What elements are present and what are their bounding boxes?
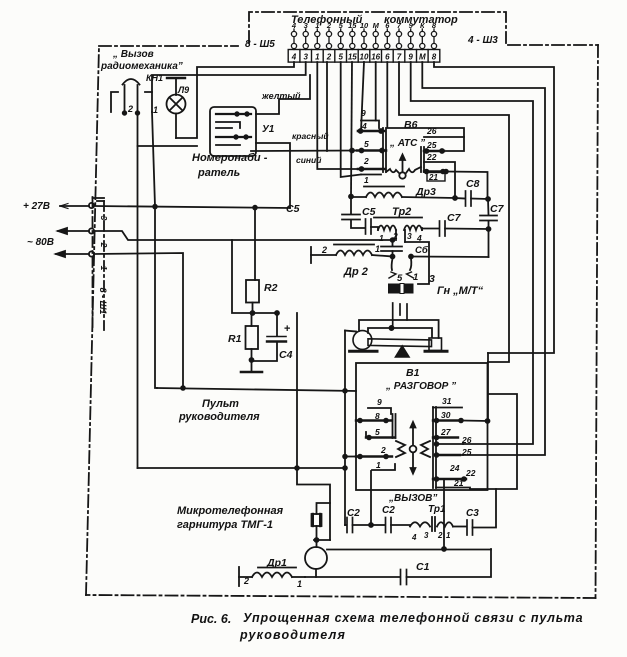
В6 contact 4 <box>358 121 384 133</box>
svg-text:1: 1 <box>153 105 158 115</box>
strip top pin numbers <box>291 21 437 30</box>
В1 right rail <box>433 407 436 488</box>
svg-text:Сб: Сб <box>415 245 429 256</box>
В1 contact 2 <box>356 445 392 458</box>
telephone capsule <box>305 547 327 577</box>
В1 contact 1 <box>372 460 395 470</box>
svg-text:гарнитура ТМГ-1: гарнитура ТМГ-1 <box>177 519 273 531</box>
~80V wire (pin1) <box>94 253 185 390</box>
~80V rail (pin2) <box>94 231 394 242</box>
svg-text:Микротелефонная: Микротелефонная <box>177 505 284 517</box>
wire to В1 21 <box>470 394 517 489</box>
wire красный (У1 to +27V rail) <box>256 131 329 208</box>
svg-text:1: 1 <box>375 244 380 254</box>
wire mic bottom row <box>314 538 330 542</box>
svg-text:2: 2 <box>99 242 109 248</box>
console dash-dot border (Пульт руководителя enclosure) <box>86 45 598 598</box>
capacitor C4 (electrolytic) <box>252 313 293 361</box>
В6 wiper <box>386 155 421 179</box>
svg-text:3: 3 <box>424 531 429 540</box>
lamp Л9 <box>167 78 190 138</box>
svg-text:С4: С4 <box>279 349 293 361</box>
svg-text:2: 2 <box>326 53 332 62</box>
svg-text:R2: R2 <box>264 282 278 294</box>
wire КН1 horizontal jog <box>138 145 198 147</box>
svg-text:25: 25 <box>426 140 437 150</box>
wire C4 node to mic row <box>296 313 298 468</box>
svg-text:22: 22 <box>426 152 437 162</box>
capacitor С7 (vertical) <box>480 199 505 257</box>
strip box pin numbers <box>291 53 437 62</box>
svg-text:ратель: ратель <box>197 167 240 179</box>
В6 right rail <box>421 147 424 172</box>
wire pin5 to В6 contact 1 <box>341 62 361 177</box>
wire В1-22 down to mic node <box>442 479 446 551</box>
svg-text:27: 27 <box>440 427 452 437</box>
wire pin10 to В6 contact 4 <box>361 62 364 131</box>
В1 contact 30 <box>433 410 488 422</box>
В6 contacts 2/1 <box>358 156 385 185</box>
В6 left rail <box>383 128 386 172</box>
svg-text:21: 21 <box>453 478 464 488</box>
svg-text:4: 4 <box>291 21 297 30</box>
label Гн „М/Т" <box>437 285 484 297</box>
switch В6 „АТС" labels <box>389 119 425 149</box>
svg-text:2: 2 <box>326 21 332 30</box>
svg-text:21: 21 <box>428 173 438 182</box>
capacitor С2 (first) <box>345 508 371 533</box>
svg-text:1: 1 <box>364 175 369 185</box>
capacitor С3 <box>466 489 496 535</box>
В6 contact 9 bracket <box>361 108 379 128</box>
transformer Тр1 <box>410 504 466 542</box>
svg-text:+ 27В: + 27В <box>23 201 50 212</box>
svg-text:3: 3 <box>99 216 109 221</box>
svg-text:15: 15 <box>348 21 357 30</box>
svg-text:15: 15 <box>348 53 357 62</box>
svg-text:6: 6 <box>385 53 390 62</box>
label +27В <box>23 201 50 212</box>
resistor R2 <box>246 280 278 313</box>
В1 contact 8 <box>356 411 392 422</box>
svg-text:10: 10 <box>360 53 369 62</box>
wire КН1 row to В1 <box>157 388 356 393</box>
jack Гн „М/Т" socket body <box>388 284 414 294</box>
В6 contact 26 <box>424 126 464 137</box>
svg-text:С5: С5 <box>362 206 376 218</box>
svg-text:7: 7 <box>397 53 402 62</box>
wire pin1 to В6 contact 2 <box>317 62 358 169</box>
svg-text:Др 2: Др 2 <box>343 266 368 278</box>
svg-text:22: 22 <box>465 468 476 478</box>
wire КН1 contact 2 down long <box>137 114 139 468</box>
wire pin8 right-down (D) <box>434 62 554 353</box>
connector pin 2 (~80V) <box>58 228 94 234</box>
svg-text:8 - Ш5: 8 - Ш5 <box>245 39 275 50</box>
connector pin 3 (+27V) <box>60 203 94 209</box>
+27V rail <box>94 205 290 210</box>
capacitor С5 (series) <box>362 206 378 234</box>
caption Рис.6 <box>191 611 584 642</box>
В1 labels <box>385 367 456 392</box>
svg-text:1: 1 <box>446 531 451 540</box>
svg-text:30: 30 <box>441 410 451 420</box>
svg-text:С8: С8 <box>466 178 480 190</box>
svg-text:Рис. 6.: Рис. 6. <box>191 612 231 626</box>
wire Тр2 pin3 wrap to jack <box>405 242 429 284</box>
svg-text:Упрощенная схема телефонной св: Упрощенная схема телефонной связи с пуль… <box>243 611 584 625</box>
microphone element <box>312 514 322 547</box>
svg-text:31: 31 <box>442 396 452 406</box>
svg-text:С7: С7 <box>447 212 462 224</box>
wire row y468 <box>138 466 346 470</box>
svg-text:Тр2: Тр2 <box>392 206 411 218</box>
wire С6 node to right column <box>409 255 489 259</box>
svg-text:4: 4 <box>411 533 417 542</box>
В1 contact 25 <box>435 447 472 457</box>
svg-text:5: 5 <box>364 139 369 149</box>
connector 8-Ш1 <box>93 197 105 330</box>
resistor R1 <box>228 313 258 362</box>
wire КН1 contact 1 down to В1 row <box>152 112 157 388</box>
svg-text:10: 10 <box>360 21 369 30</box>
label ~80В <box>27 237 54 248</box>
handset plug prongs <box>389 303 407 330</box>
label Микротелефонная гарнитура ТМГ-1 <box>177 505 284 531</box>
wire pinК right-down (C) to В1 25 <box>422 62 545 455</box>
handset (microtelephone) <box>350 331 447 357</box>
wire microphone feed <box>317 503 331 514</box>
svg-text:5: 5 <box>375 427 380 437</box>
wire pin2 + синий vertical <box>326 62 328 151</box>
switch В1 „РАЗГОВОР" box <box>356 363 488 490</box>
svg-text:3: 3 <box>407 231 412 241</box>
wire В6-21 to С8 node <box>444 170 487 199</box>
dialer У1 (Номеронабиратель) <box>210 107 275 156</box>
svg-text:„ Вызов: „ Вызов <box>112 49 154 60</box>
svg-text:1: 1 <box>413 272 418 283</box>
svg-text:В1: В1 <box>406 367 420 379</box>
В1 contact 26 <box>435 435 472 446</box>
svg-text:2: 2 <box>243 576 249 586</box>
wire pin15 to С5/Др3 node <box>349 62 353 199</box>
svg-text:красный: красный <box>292 131 329 141</box>
В1 contact 9 <box>368 397 391 414</box>
handset cord wires <box>345 320 439 338</box>
svg-text:1: 1 <box>376 460 381 470</box>
capacitor С6 <box>381 240 429 259</box>
В1 contact 21 <box>436 478 470 489</box>
svg-text:С7: С7 <box>490 203 505 215</box>
svg-text:8: 8 <box>432 53 437 62</box>
label Номеронабиратель <box>192 152 268 179</box>
wire pin6 to В6 26/25 <box>387 62 464 151</box>
svg-text:3: 3 <box>303 53 308 62</box>
wire to microphone column <box>297 468 330 540</box>
svg-text:26: 26 <box>461 435 472 445</box>
svg-text:Тр1: Тр1 <box>428 504 446 515</box>
svg-text:2: 2 <box>380 445 386 455</box>
capacitor С2 (second) <box>371 505 410 533</box>
svg-text:Гн „М/Т“: Гн „М/Т“ <box>437 285 484 297</box>
svg-text:М: М <box>419 53 426 62</box>
node R2/R1/C4 <box>232 240 279 315</box>
В1 contact 5 <box>366 427 395 439</box>
svg-text:„ АТС ”: „ АТС ” <box>389 138 425 149</box>
svg-text:руководителя: руководителя <box>178 411 260 423</box>
svg-text:16: 16 <box>371 53 380 62</box>
vertical handset/mic bus <box>343 331 347 526</box>
connector strip pins 8-Ш5/4-Ш3 <box>291 29 436 50</box>
wire pin4 to lamp Л9 <box>176 62 294 138</box>
svg-text:5: 5 <box>338 53 343 62</box>
svg-text:8: 8 <box>375 411 380 421</box>
svg-text:2: 2 <box>321 245 327 255</box>
svg-text:1: 1 <box>315 53 320 62</box>
capacitor С7 (series) <box>422 212 489 236</box>
label 8-Ш5 <box>245 39 275 50</box>
svg-text:М: М <box>373 21 380 30</box>
В6 contact 25 <box>424 140 444 153</box>
label: Телефонный коммутатор <box>291 14 458 26</box>
svg-text:4: 4 <box>291 53 297 62</box>
svg-text:1: 1 <box>379 233 384 243</box>
svg-text:„ РАЗГОВОР ”: „ РАЗГОВОР ” <box>385 381 456 392</box>
8-Ш1 pin numbers (rotated) <box>98 216 109 315</box>
svg-text:С2: С2 <box>382 505 395 516</box>
pushbutton КН1 <box>111 73 163 115</box>
wire capsule to В1-22 node <box>327 549 491 551</box>
wire pin16 to В6 contact 9 <box>375 62 377 121</box>
В1 contact 24/22 <box>433 463 476 481</box>
svg-text:„ВЫЗОВ”: „ВЫЗОВ” <box>388 493 437 504</box>
svg-text:1: 1 <box>315 21 319 30</box>
svg-text:радиомеханика”: радиомеханика” <box>100 61 183 72</box>
choke Др2 <box>311 244 393 278</box>
wire pin9 right-down (B) to В1 26 <box>411 62 533 444</box>
wire right column to В1 frame <box>486 353 490 423</box>
svg-text:8 - Ш1: 8 - Ш1 <box>98 288 108 315</box>
svg-text:руководителя: руководителя <box>239 628 346 642</box>
switchboard dash-dot box (Телефонный коммутатор) <box>249 12 506 43</box>
В1 contact 27 <box>433 427 458 439</box>
svg-text:Пульт: Пульт <box>202 398 239 410</box>
svg-text:9: 9 <box>377 397 382 407</box>
svg-text:1: 1 <box>99 266 109 271</box>
svg-text:9: 9 <box>408 53 413 62</box>
svg-text:2: 2 <box>437 531 443 540</box>
transformer Тр2 <box>374 206 422 243</box>
wire В1-1 to С2 node <box>369 471 373 527</box>
strip terminal box row <box>288 50 440 63</box>
capacitor С1 <box>305 549 491 585</box>
svg-text:С3: С3 <box>466 508 479 519</box>
svg-text:1: 1 <box>297 579 302 589</box>
svg-text:желтый: желтый <box>261 91 301 101</box>
wire синий (У1 to В6) <box>251 151 357 166</box>
wire pin3 to КН1 <box>152 62 306 92</box>
svg-text:5: 5 <box>397 273 403 284</box>
В6 contact 21 <box>424 170 445 182</box>
label 4-Ш3 <box>467 35 498 46</box>
svg-text:R1: R1 <box>228 333 242 345</box>
jack Гн „М/Т" contacts <box>389 259 435 286</box>
В1 wiper <box>396 422 430 474</box>
svg-text:25: 25 <box>461 447 472 457</box>
svg-text:2: 2 <box>363 156 369 166</box>
svg-text:4 - Ш3: 4 - Ш3 <box>467 35 498 46</box>
svg-text:С1: С1 <box>416 561 430 573</box>
В6 contact 22 <box>424 152 455 198</box>
capacitor С8 <box>455 178 490 206</box>
ground <box>241 361 262 372</box>
svg-text:~ 80В: ~ 80В <box>27 237 54 248</box>
svg-text:синий: синий <box>296 155 322 165</box>
choke Др3 <box>351 186 457 200</box>
svg-text:С5: С5 <box>286 203 300 215</box>
svg-text:С2: С2 <box>347 508 360 519</box>
wire В1-2 to bus <box>345 456 356 458</box>
svg-text:24: 24 <box>449 463 460 473</box>
svg-text:+: + <box>284 323 290 335</box>
svg-text:Номеронаби -: Номеронаби - <box>192 152 268 164</box>
В6 contact 5 <box>350 139 386 153</box>
label „Вызов радиомеханика" <box>100 49 183 72</box>
svg-text:В6: В6 <box>404 119 418 131</box>
В1 left rail <box>393 414 396 438</box>
В1 contact 31 <box>433 396 462 408</box>
label „ВЫЗОВ" <box>388 493 437 504</box>
svg-text:Л9: Л9 <box>177 85 189 95</box>
wire pin7 right-down (A) <box>399 62 509 362</box>
capacitor С5 (shunt) <box>286 197 365 229</box>
wire желтый (У1 to strip pin 3) <box>256 75 310 114</box>
svg-text:У1: У1 <box>262 124 275 135</box>
svg-text:2: 2 <box>127 104 133 114</box>
svg-text:Др3: Др3 <box>415 186 436 198</box>
choke Др1 <box>239 557 305 589</box>
wire +27V to R2 <box>254 208 256 280</box>
connector pin 1 (~80V) <box>56 251 94 257</box>
label Пульт руководителя <box>178 398 260 423</box>
